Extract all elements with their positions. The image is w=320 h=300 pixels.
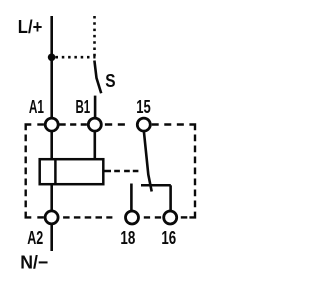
wire A2 tail xyxy=(50,224,53,252)
svg-text:S: S xyxy=(105,70,115,91)
svg-text:L/+: L/+ xyxy=(18,16,43,37)
wire A1 to coil xyxy=(50,131,53,160)
relay outline dashed box bottom edge xyxy=(37,216,44,218)
svg-text:A2: A2 xyxy=(27,227,43,248)
svg-text:N/−: N/− xyxy=(20,252,48,273)
terminal 16 xyxy=(164,211,177,224)
wire B1 to coil xyxy=(94,131,97,160)
relay outline dashed box corner top-right xyxy=(189,125,195,131)
relay outline dashed box corner bottom-left xyxy=(26,212,32,218)
contact stub 18 xyxy=(130,184,133,212)
relay outline dashed box corner top-left xyxy=(26,125,32,131)
wire bar to 16 xyxy=(169,185,172,211)
mechanical link solid stub xyxy=(103,170,111,173)
mechanical link dashed xyxy=(114,170,138,172)
wire dotted control line vertical xyxy=(93,16,96,58)
terminal 15 xyxy=(137,118,150,131)
relay outline dashed box top edge xyxy=(37,123,44,125)
wire L/+ supply vertical xyxy=(50,16,53,119)
svg-text:B1: B1 xyxy=(76,96,91,117)
terminal A2 xyxy=(45,211,58,224)
relay outline dashed box corner bottom-right xyxy=(189,212,195,218)
relay coil K1 xyxy=(40,159,104,184)
svg-text:15: 15 xyxy=(136,96,151,117)
wire dotted control line horizontal xyxy=(56,56,96,59)
switch S fixed contact to B1 xyxy=(94,96,97,119)
relay coil divider xyxy=(54,159,57,184)
relay outline dashed box left edge xyxy=(25,135,27,212)
terminal 18 xyxy=(126,211,139,224)
svg-text:18: 18 xyxy=(120,227,135,248)
relay outline dashed box right edge xyxy=(194,135,196,212)
terminal B1 xyxy=(88,118,101,131)
contact lever from 15 xyxy=(144,132,152,192)
terminal A1 xyxy=(45,118,58,131)
wire coil to A2 xyxy=(50,184,53,211)
contact bar xyxy=(141,184,171,187)
svg-text:16: 16 xyxy=(161,227,176,248)
node junction dot xyxy=(48,54,56,62)
switch S lever xyxy=(94,61,101,94)
svg-text:A1: A1 xyxy=(29,96,44,117)
